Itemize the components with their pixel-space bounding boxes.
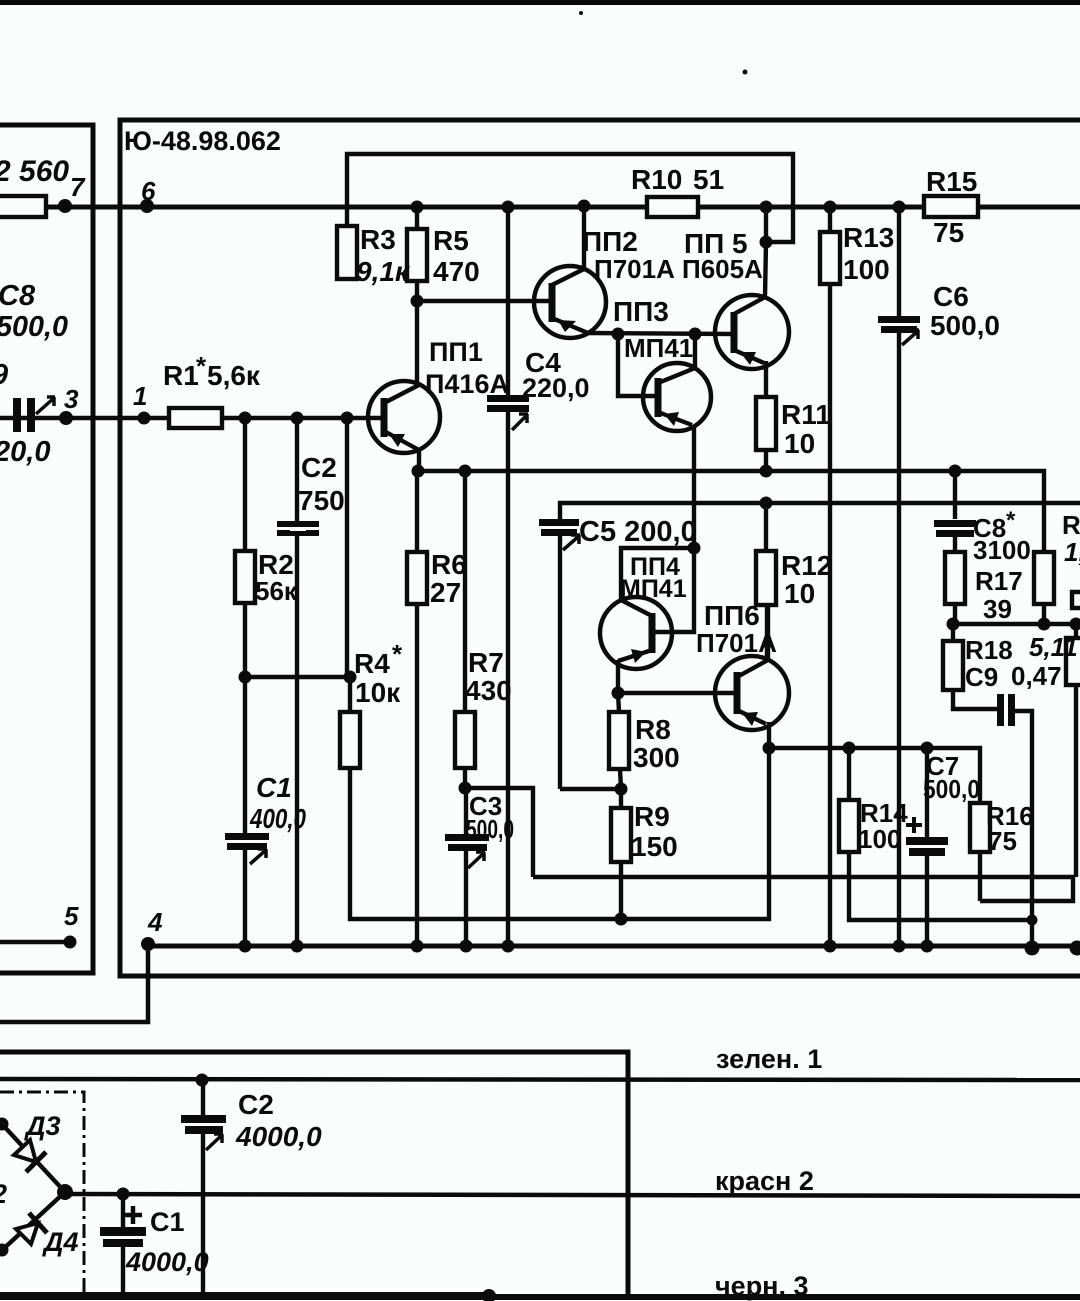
terminal 5 — [64, 936, 77, 949]
resistor R8 300 — [609, 712, 629, 769]
terminal 3 — [59, 411, 73, 425]
junction ground rail right edge — [1070, 941, 1080, 956]
svg-text:R8: R8 — [635, 714, 671, 745]
wire: R3/R4 chain x=347 from base line down to node A line — [345, 418, 349, 677]
capacitor C4 220,0 (plates) — [487, 395, 529, 430]
junction R7 top — [459, 465, 472, 478]
junction ground rail x=466 — [460, 940, 473, 953]
svg-text:10к: 10к — [355, 677, 401, 708]
svg-text:20,0: 20,0 — [0, 436, 50, 468]
junction R11 bottom — [760, 465, 773, 478]
svg-text:750: 750 — [298, 485, 345, 516]
svg-text:П605А: П605А — [682, 254, 763, 284]
terminal 7 — [58, 199, 72, 213]
junction ПП2 collector on rail — [578, 200, 591, 213]
wire: R11 bottom to output line — [764, 450, 768, 471]
svg-text:C2: C2 — [238, 1089, 274, 1120]
svg-text:39: 39 — [983, 594, 1012, 624]
wire: ПП3 emitter down to ПП4 node — [692, 425, 696, 548]
svg-text:2: 2 — [0, 1179, 7, 1209]
junction R9 bottom on feedback line — [615, 913, 628, 926]
svg-text:300: 300 — [633, 742, 680, 773]
svg-text:ПП1: ПП1 — [429, 337, 483, 367]
junction ПП3 collector rise — [689, 328, 702, 341]
capacitor 20,0 of left block (plates) — [13, 397, 55, 432]
junction ground rail x=927 — [921, 940, 934, 953]
wire: bottom ground rail of amp block y=946 — [148, 944, 1080, 949]
svg-text:зелен. 1: зелен. 1 — [716, 1044, 822, 1074]
wire: AC feedback line y=877 — [533, 877, 1073, 901]
svg-text:С2: С2 — [301, 452, 337, 483]
resistor R3 9,1к — [337, 226, 357, 279]
wire: driver line C5-top to R12-top y=503 — [560, 503, 1080, 520]
wire: R4 branch x=350 — [348, 677, 352, 712]
wire: R2 branch x=245 — [243, 418, 247, 551]
wire: main +rail y=207 — [46, 205, 1080, 210]
junction ПП1 emitter / output line — [412, 465, 425, 478]
bottom border bar / черн.3 wire — [0, 1292, 1080, 1300]
junction ground rail x=830 — [824, 940, 837, 953]
svg-text:П416А: П416А — [425, 369, 509, 399]
resistor R1 5,6к — [169, 408, 222, 428]
wire: Zobel line y=624 — [953, 622, 1080, 626]
svg-text:4000,0: 4000,0 — [235, 1121, 322, 1152]
transistor ПП1 П416А — [368, 301, 440, 471]
wire: output node line y=471 — [418, 469, 955, 473]
svg-text:5,11: 5,11 — [1029, 632, 1078, 662]
svg-text:400,0: 400,0 — [249, 803, 306, 834]
lower power-supply block frame — [0, 1052, 628, 1296]
svg-text:C1: C1 — [150, 1207, 185, 1237]
wire: R5/ПП1-collector branch x=417 — [415, 207, 419, 301]
wire: R13 branch x=830 rail to ground — [828, 207, 832, 946]
svg-text:75: 75 — [933, 217, 964, 248]
svg-text:*: * — [196, 351, 207, 381]
svg-text:5: 5 — [64, 901, 79, 931]
svg-text:430: 430 — [465, 675, 512, 706]
resistor R11 10 — [756, 397, 776, 450]
svg-text:500,0: 500,0 — [0, 311, 68, 343]
junction R12 top — [760, 497, 773, 510]
capacitor C2 4000,0 psu (plates) — [181, 1115, 226, 1150]
junction C2 top (psu) — [196, 1074, 209, 1087]
svg-text:Д3: Д3 — [24, 1111, 61, 1141]
svg-text:3: 3 — [64, 384, 79, 414]
svg-text:5,6к: 5,6к — [207, 360, 261, 391]
svg-text:R: R — [1062, 510, 1080, 540]
svg-text:500,0: 500,0 — [930, 310, 1000, 341]
svg-text:*: * — [1006, 507, 1016, 534]
svg-text:R18: R18 — [965, 635, 1013, 665]
junction bridge output — [57, 1184, 73, 1200]
junction ground rail x=508 — [502, 940, 515, 953]
wire: ПП4 base tie x=694 — [652, 548, 694, 632]
svg-text:П701А: П701А — [594, 254, 675, 284]
node 4 — [141, 937, 155, 951]
junction R5 top on rail — [411, 201, 424, 214]
wire: R3 top feed line y=154 with drop to ПП5 collector — [347, 154, 793, 242]
resistor R18 5,1 — [943, 641, 963, 690]
resistor R10 51 (in rail) — [647, 197, 698, 217]
wire: C1 branch x=245 below node A — [243, 677, 247, 946]
wire: R4 bottom to feedback line — [350, 768, 621, 919]
svg-text:R12: R12 — [781, 550, 832, 581]
wire: bridge lower diagonal — [0, 1192, 65, 1252]
wire: ПП2 emitter to ПП5 base line y=334 — [586, 333, 734, 334]
svg-text:*: * — [392, 639, 403, 669]
resistor R9 150 — [611, 808, 631, 862]
resistor R15 75 (in rail) — [924, 196, 978, 217]
junction C2 top — [291, 412, 304, 425]
junction ПП5 collector node — [760, 236, 773, 249]
junction rail x=766 — [760, 201, 773, 214]
junction R4 top — [344, 671, 357, 684]
junction ПП4 emitter / R8 top — [612, 687, 625, 700]
junction R14 top — [843, 742, 856, 755]
svg-text:R5: R5 — [433, 225, 469, 256]
transistor ПП5 П605А — [715, 242, 789, 369]
junction ПП3 base drop — [612, 328, 625, 341]
main amplifier block frame Ю-48.98.062 — [120, 120, 1080, 976]
junction edge resistor top — [1070, 618, 1080, 631]
wire: C6 branch x=899 rail to ground — [897, 207, 901, 946]
svg-text:4000,0: 4000,0 — [125, 1247, 209, 1277]
svg-text:С9: С9 — [965, 662, 998, 692]
wire: node A horizontal y=677 — [245, 675, 350, 679]
capacitor C1 4000,0 psu (plates and +) — [100, 1206, 146, 1247]
svg-text:75: 75 — [988, 826, 1017, 856]
wire: ПП2 base line y=301 — [417, 299, 552, 303]
wire: C1 branch x=123 (psu) — [121, 1194, 125, 1296]
svg-text:ПП2: ПП2 — [582, 226, 638, 257]
transistor ПП2 П701А — [534, 206, 606, 338]
wire: R18 bottom to C9 — [953, 690, 997, 709]
svg-text:С5 200,0: С5 200,0 — [579, 516, 697, 548]
wire: ПП3 base route — [618, 334, 658, 396]
wire: R19 bottom — [1042, 604, 1046, 624]
svg-text:10: 10 — [784, 428, 815, 459]
diode Д4 — [16, 1213, 47, 1244]
svg-text:100: 100 — [843, 254, 890, 285]
transistor ПП6 П701А — [715, 606, 789, 730]
svg-text:С6: С6 — [933, 281, 969, 312]
wire: красн rail y=1195 — [65, 1194, 1080, 1196]
junction ground rail x=297 — [291, 940, 304, 953]
wire: R6 branch x=417 down to ground — [415, 471, 419, 946]
wire: emitter output line y=748 — [769, 748, 980, 803]
junction C4 top on rail — [502, 201, 515, 214]
svg-text:R3: R3 — [360, 224, 396, 255]
wire: ПП4 emitter down — [616, 660, 620, 693]
junction transformer tap lower — [0, 1244, 9, 1257]
junction ground rail x=245 — [239, 940, 252, 953]
junction transformer tap upper — [0, 1118, 9, 1131]
junction R3/R4 on base line — [341, 412, 354, 425]
svg-text:R9: R9 — [634, 801, 670, 832]
wire: R18 branch x=953 — [951, 624, 955, 641]
wire: R9 branch — [619, 789, 623, 808]
wire: output line corner to R19 — [955, 471, 1044, 552]
svg-text:Д4: Д4 — [42, 1227, 79, 1257]
transistor ПП3 МП41 — [643, 334, 711, 431]
wire: C2 branch x=297 down to ground rail — [295, 418, 299, 946]
svg-text:7: 7 — [70, 172, 86, 202]
wire: vertical from rail to ПП5 collector node — [764, 207, 768, 242]
junction R2 top — [239, 412, 252, 425]
wire: ПП5 emitter to R11 — [764, 361, 768, 397]
junction R8/R9/C5 — [615, 783, 628, 796]
svg-text:10: 10 — [784, 578, 815, 609]
resistor R13 100 — [820, 232, 840, 284]
svg-text:R13: R13 — [843, 222, 894, 253]
wire: ПП6 base line y=693 — [618, 691, 737, 695]
wire: R14 bottom to ground via y=920 — [849, 852, 1033, 920]
node 1 — [138, 412, 151, 425]
resistor R12 10 — [756, 503, 776, 660]
wire: C8/R17 branch x=955 — [953, 471, 957, 624]
resistor R6 27 — [407, 552, 427, 604]
svg-text:ПП6: ПП6 — [704, 600, 760, 631]
dash-dot screen boundary — [0, 1092, 84, 1296]
wire: ПП6 emitter down x=769 — [621, 722, 769, 919]
svg-text:R10: R10 — [631, 164, 682, 195]
svg-text:ПП3: ПП3 — [613, 296, 669, 327]
resistor R14 100 — [839, 800, 859, 852]
resistor R20 at image edge — [1066, 624, 1080, 877]
svg-text:С1: С1 — [256, 772, 292, 803]
junction R5 bottom / ПП2 base line — [411, 295, 424, 308]
resistor R2 56к — [235, 551, 255, 603]
svg-text:0,47: 0,47 — [1011, 661, 1062, 691]
svg-text:2 560: 2 560 — [0, 155, 69, 188]
junction R17 bottom — [947, 618, 960, 631]
capacitor C8 3100 (plates) — [934, 519, 976, 537]
wire: C2 branch x=203 (psu) — [201, 1080, 205, 1296]
svg-text:500,0: 500,0 — [466, 814, 514, 844]
wire: R9 bottom to DC feedback line — [619, 862, 623, 919]
svg-text:R11: R11 — [781, 399, 831, 430]
resistor R17 39 — [945, 552, 965, 604]
junction C7 top — [921, 742, 934, 755]
node A junction R2 bottom — [239, 671, 252, 684]
transistor ПП4 МП41 — [600, 597, 672, 669]
wire: R8 branch — [618, 693, 619, 712]
junction ground rail x=417 — [411, 940, 424, 953]
svg-text:R4: R4 — [354, 648, 390, 679]
diode Д3 — [14, 1140, 46, 1172]
capacitor C7 500,0 (plates and +) — [906, 817, 948, 856]
resistor R16 75 — [970, 803, 990, 852]
junction C6 top on rail — [893, 201, 906, 214]
svg-text:МП41: МП41 — [624, 333, 693, 363]
junction R14 ground corner — [1027, 915, 1038, 926]
capacitor C1 400,0 (plates) — [225, 833, 269, 864]
wire: R14 branch x=849 — [847, 748, 851, 800]
svg-text:Ю-48.98.062: Ю-48.98.062 — [124, 126, 281, 156]
svg-text:27: 27 — [430, 577, 461, 608]
svg-text:3100: 3100 — [973, 535, 1031, 565]
svg-text:56к: 56к — [255, 576, 298, 606]
resistor R19 — [1034, 552, 1054, 604]
terminal 5 wire — [0, 940, 70, 944]
svg-text:черн. 3: черн. 3 — [715, 1271, 809, 1301]
wire: bridge upper diagonal — [0, 1122, 65, 1192]
wire: R7 branch x=465 — [463, 471, 467, 788]
svg-text:220,0: 220,0 — [522, 373, 590, 403]
junction R7 bottom / C3 top — [459, 782, 472, 795]
resistor 560 of left block (cut at edge) — [0, 196, 66, 217]
capacitor C3 500,0 (plates) — [445, 834, 489, 868]
svg-text:R6: R6 — [431, 549, 467, 580]
wire: C5 bottom x=560 — [558, 536, 562, 789]
svg-text:4: 4 — [147, 907, 163, 937]
wire: node 4 to outside left — [0, 944, 148, 1022]
svg-text:С8: С8 — [0, 280, 36, 312]
wire: C7 branch x=927 — [925, 748, 929, 946]
wire: зелен rail y=1079 — [0, 1079, 1080, 1080]
wire: R16 bottom to AC feedback line — [978, 852, 982, 901]
svg-text:R7: R7 — [468, 647, 504, 678]
wire: feedback tap from R7/C3 to AC feedback line — [465, 788, 533, 877]
svg-text:51: 51 — [693, 164, 724, 195]
junction on bottom bar — [482, 1289, 496, 1301]
junction ПП6 emitter node — [763, 742, 776, 755]
capacitor C6 500,0 (plates) — [878, 316, 920, 345]
wire: C3 branch x=466 down to ground — [464, 788, 468, 946]
junction ПП3 emitter / ПП4 diode node — [688, 542, 701, 555]
svg-text:R1: R1 — [163, 360, 199, 391]
svg-text:R17: R17 — [975, 566, 1023, 596]
svg-text:1: 1 — [133, 381, 147, 411]
svg-text:500,0: 500,0 — [923, 774, 980, 804]
svg-text:красн 2: красн 2 — [715, 1166, 814, 1196]
svg-text:150: 150 — [631, 831, 678, 862]
svg-text:6: 6 — [141, 176, 156, 206]
junction C8 top on output line — [949, 465, 962, 478]
partial component mark at right edge — [1072, 592, 1080, 608]
wire: C9 right to ground rail — [1015, 711, 1032, 946]
svg-text:9: 9 — [0, 359, 8, 391]
node 6 — [140, 199, 154, 213]
capacitor C2 750 (plates) — [277, 521, 319, 536]
junction R19 bottom — [1038, 618, 1051, 631]
wire: R2 bottom to node A — [243, 603, 247, 677]
top border bar of sheet — [0, 0, 1080, 75]
junction C1 top (psu) — [117, 1188, 130, 1201]
capacitor C5 200,0 (plates) — [539, 519, 580, 550]
junction ground rail x=1032 — [1025, 941, 1040, 956]
svg-text:R15: R15 — [926, 166, 977, 197]
wire: C4 branch x=508 rail to ground — [506, 207, 510, 946]
wire: C5 bottom to R8/R9 junction y=789 — [560, 787, 621, 791]
svg-text:9,1к: 9,1к — [356, 256, 411, 287]
svg-text:П701А: П701А — [696, 628, 777, 658]
left block (preceding stage) frame — [0, 125, 93, 973]
svg-text:МП41: МП41 — [620, 575, 687, 603]
capacitor C9 0,47 (plates) — [997, 694, 1015, 726]
junction R13 top on rail — [824, 201, 837, 214]
resistor R7 430 — [455, 712, 475, 768]
svg-text:1,: 1, — [1064, 537, 1080, 567]
junction ground rail x=899 — [893, 940, 906, 953]
svg-text:100: 100 — [858, 824, 901, 854]
svg-text:470: 470 — [433, 256, 480, 287]
wire: R8 bottom — [620, 769, 621, 789]
wire: input line from terminal 3 to ПП1 base y=418 — [0, 416, 384, 421]
resistor R5 470 — [407, 229, 427, 281]
wire: ПП4 collector tie y=548 — [621, 548, 694, 600]
resistor R4 10к — [340, 712, 360, 768]
